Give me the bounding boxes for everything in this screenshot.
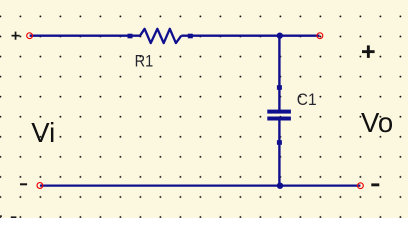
wire capacitor top (node to C1)	[278, 36, 280, 111]
svg-text:R1: R1	[135, 52, 154, 71]
+ polarity mark left (Vi)	[12, 32, 20, 40]
- polarity mark left (Vi)	[20, 183, 27, 185]
wire top-right (R1 to Vo terminal)	[181, 35, 319, 37]
node junction top	[277, 32, 283, 38]
svg-text:Vo: Vo	[361, 107, 393, 138]
label R1	[135, 52, 154, 71]
+ polarity mark right (Vo)	[362, 45, 375, 58]
label Vo	[361, 107, 393, 138]
wire capacitor bottom (C1 to bottom rail)	[278, 119, 280, 186]
- polarity mark right (Vo)	[371, 183, 379, 186]
wire top-left (Vi+ to R1)	[30, 35, 140, 37]
terminal Vo- (bottom-right, red)	[358, 183, 364, 189]
terminal Vo+ (top-right, red)	[317, 33, 323, 39]
label C1	[297, 90, 317, 109]
svg-text:C1: C1	[297, 90, 317, 109]
resistor R1	[128, 29, 193, 43]
capacitor C1	[267, 85, 291, 145]
node junction bottom	[277, 183, 283, 189]
terminal Vi- (bottom-left, red)	[37, 183, 43, 189]
cut-off content at bottom edge	[0, 215, 16, 218]
terminal Vi+ (top-left, red)	[27, 33, 33, 39]
svg-text:Vi: Vi	[31, 117, 55, 148]
wire bottom rail	[40, 184, 361, 186]
label Vi	[31, 117, 55, 148]
